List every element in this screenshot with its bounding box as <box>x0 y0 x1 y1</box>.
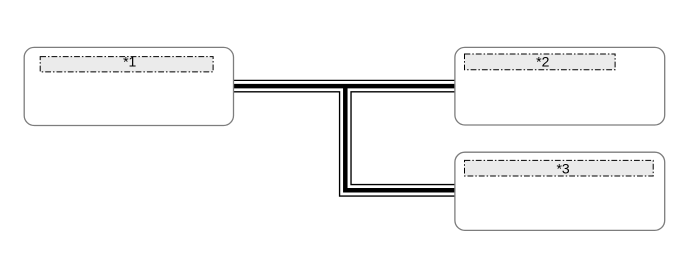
wire W1 white casing <box>233 81 456 91</box>
svg-text:*2: *2 <box>536 53 549 69</box>
wire W2 outer casing (junction to box3) <box>345 86 455 190</box>
label box *3 <box>465 160 654 176</box>
svg-text:*3: *3 <box>556 160 569 176</box>
label box *1 <box>40 57 213 72</box>
svg-text:*1: *1 <box>123 54 136 70</box>
box 1 <box>24 47 233 125</box>
box 3 <box>455 152 665 230</box>
wire W2 white casing <box>345 86 455 190</box>
wire W1 core <box>233 84 456 89</box>
box 2 <box>455 47 665 125</box>
label box *2 <box>465 54 616 70</box>
wire W1 outer casing (box1 to box2) <box>233 80 456 93</box>
wire W2 core <box>345 86 455 190</box>
